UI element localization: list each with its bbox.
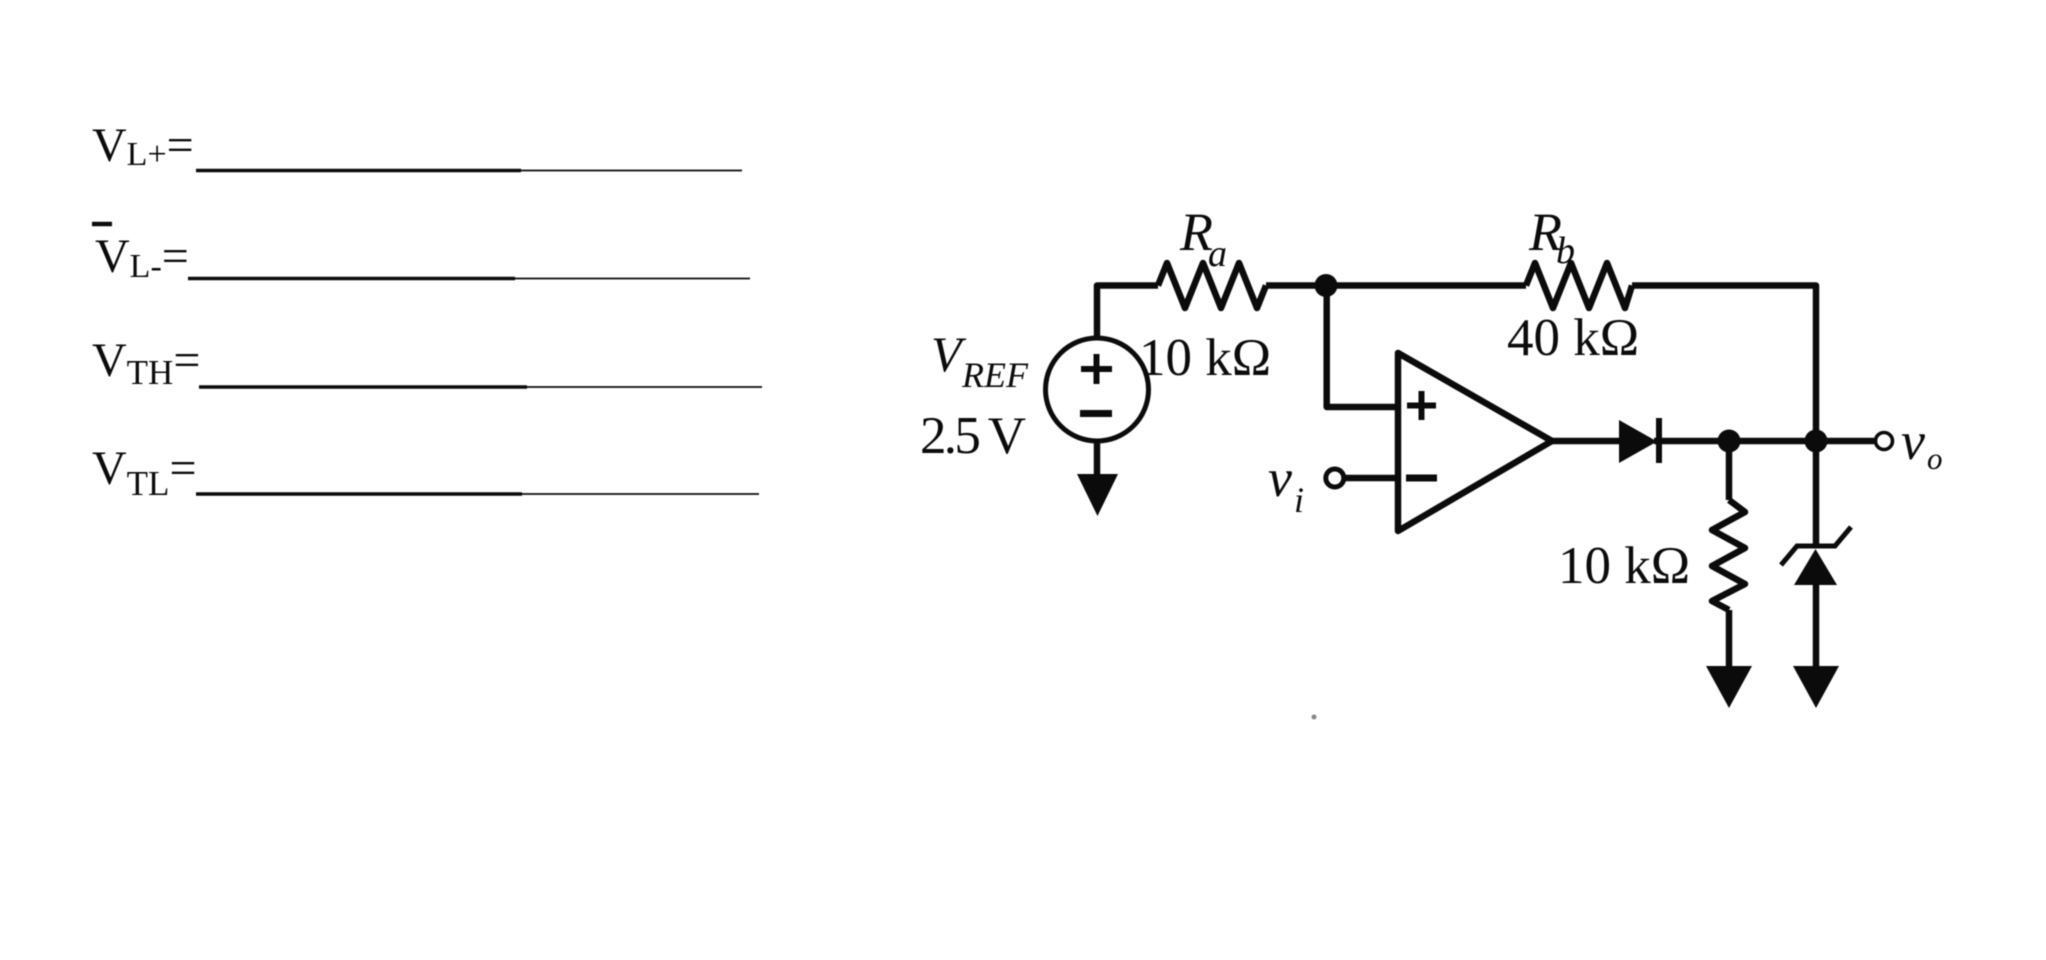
svg-text:40 kΩ: 40 kΩ [1507,309,1639,367]
svg-text:2.5 V: 2.5 V [920,407,1026,465]
svg-text:10 kΩ: 10 kΩ [1139,329,1271,387]
svg-text:v: v [1901,411,1925,471]
svg-text:VTL=: VTL= [92,442,197,503]
svg-text:o: o [1927,441,1943,476]
svg-text:b: b [1556,230,1575,272]
svg-text:i: i [1294,480,1304,520]
svg-text:VL-=: VL-= [95,230,189,285]
svg-text:VL+=: VL+= [92,119,194,173]
svg-text:VTH=: VTH= [92,334,200,392]
svg-text:a: a [1208,233,1227,275]
svg-text:REF: REF [961,355,1029,395]
svg-text:10 kΩ: 10 kΩ [1558,537,1690,595]
svg-text:v: v [1268,448,1292,508]
